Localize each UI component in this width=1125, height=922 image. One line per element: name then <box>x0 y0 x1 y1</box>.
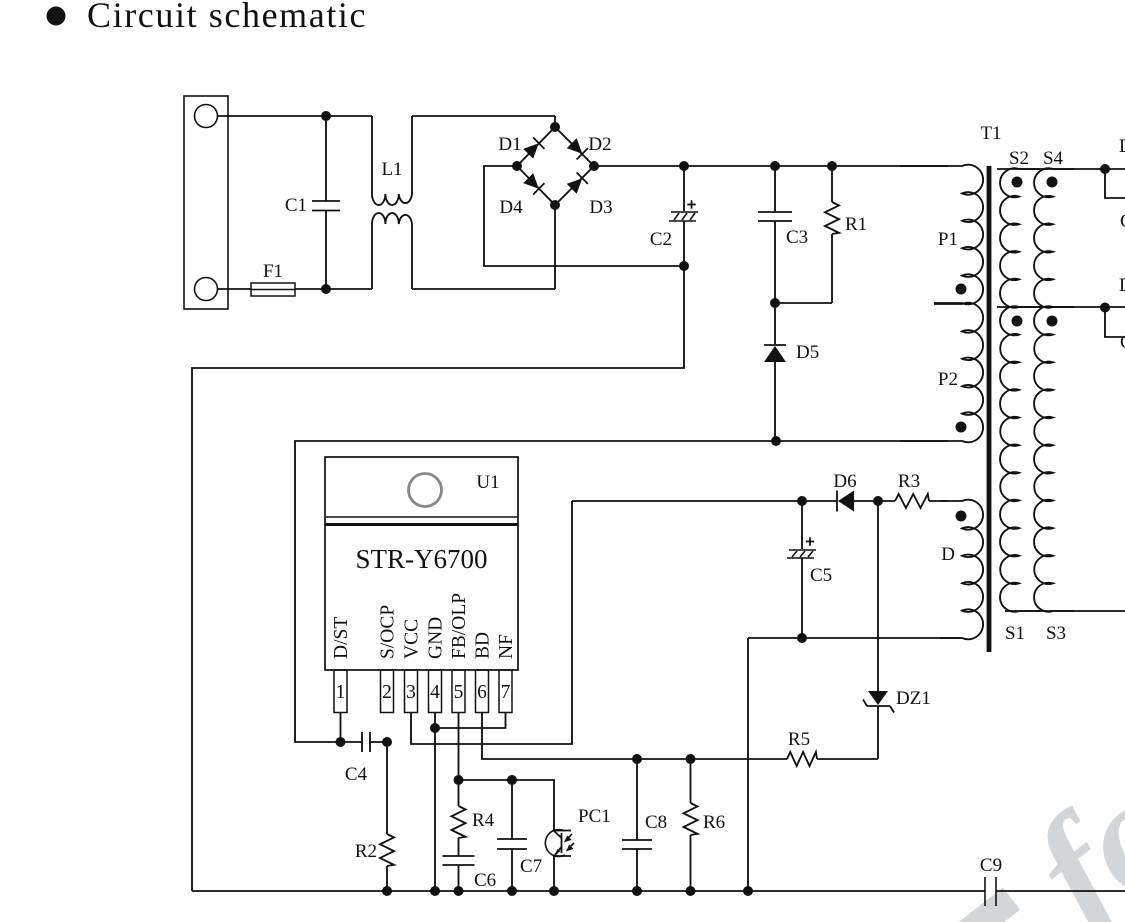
winding S4 upper <box>1034 168 1074 307</box>
label D winding <box>941 544 955 565</box>
node C5 bottom <box>797 633 807 643</box>
wire pin4 GND <box>434 713 436 892</box>
wire primary return <box>295 441 948 742</box>
svg-text:R2: R2 <box>355 841 377 862</box>
node C3 bottom <box>770 298 780 308</box>
node D5 anode <box>771 436 781 446</box>
diode D1 <box>523 138 545 160</box>
wire VCC rail <box>572 500 837 502</box>
svg-text:FB/OLP: FB/OLP <box>449 593 470 659</box>
label D5 <box>796 342 819 363</box>
capacitor C4 <box>341 732 388 752</box>
label D7 partial <box>1119 136 1125 157</box>
node C3 top <box>770 161 780 171</box>
pin 7 number <box>501 682 511 703</box>
connector pin bottom <box>195 278 218 301</box>
node bridge top <box>550 122 560 132</box>
node C1 bottom <box>321 284 331 294</box>
node secondary top <box>1100 164 1110 174</box>
phase dot D <box>956 511 967 522</box>
node C1 top <box>321 111 331 121</box>
label D8 partial <box>1119 275 1125 296</box>
wire secondary top drop <box>1105 169 1125 198</box>
svg-text:C2: C2 <box>650 229 672 250</box>
wire pin3 VCC <box>411 501 572 744</box>
node C5 return gnd <box>743 886 753 896</box>
bridge frame <box>517 127 594 205</box>
capacitor C6 <box>443 856 475 891</box>
node bridge right <box>589 161 599 171</box>
diode D5 <box>764 303 786 441</box>
node pin2 <box>382 737 392 747</box>
node C6 gnd <box>454 886 464 896</box>
label R4 <box>472 810 495 831</box>
capacitor C8 <box>622 759 652 891</box>
IC U1 hole <box>409 474 442 507</box>
svg-text:L1: L1 <box>381 159 402 180</box>
svg-text:F1: F1 <box>263 261 283 282</box>
wire pin1 D/ST <box>340 713 342 743</box>
svg-text:1: 1 <box>336 682 346 703</box>
svg-text:6: 6 <box>477 682 487 703</box>
resistor R2 <box>380 742 394 891</box>
node C7 gnd <box>507 886 517 896</box>
label D1 <box>498 134 521 155</box>
resistor R4 <box>452 780 466 856</box>
label C8 <box>645 812 667 833</box>
node R1 top <box>827 161 837 171</box>
winding P2 <box>900 303 983 443</box>
winding P1 <box>900 165 983 305</box>
node C2 top <box>679 161 689 171</box>
svg-text:2: 2 <box>382 682 392 703</box>
svg-text:C1: C1 <box>285 195 307 216</box>
connector J1 <box>184 96 228 309</box>
wire L1 to bridge bottom <box>412 205 555 289</box>
label S3 <box>1046 623 1066 644</box>
connector pin top <box>195 105 218 128</box>
resistor R3 <box>878 494 948 508</box>
pin 1 number <box>336 682 346 703</box>
svg-text:5: 5 <box>454 682 464 703</box>
node secondary mid <box>1100 303 1110 313</box>
label PC1 <box>578 806 611 827</box>
svg-text:BD: BD <box>473 632 494 659</box>
wire bridge minus <box>484 166 684 266</box>
capacitor C1 <box>312 116 340 289</box>
svg-text:3: 3 <box>406 682 416 703</box>
label R2 <box>355 841 377 862</box>
transformer core <box>987 166 992 652</box>
svg-text:4: 4 <box>430 682 440 703</box>
svg-text:S3: S3 <box>1046 623 1066 644</box>
svg-text:C5: C5 <box>810 565 832 586</box>
node C7 top <box>507 775 517 785</box>
diode D6 <box>837 491 878 512</box>
wire secondary bottom <box>1005 610 1125 612</box>
phase dot S2 lower <box>1012 316 1023 327</box>
wire pin6 BD <box>482 713 787 760</box>
pin 4 number <box>430 682 440 703</box>
pin 6 number <box>477 682 487 703</box>
capacitor C5 <box>787 501 816 638</box>
pin 7 name NF <box>496 634 517 659</box>
node C5 top <box>797 496 807 506</box>
svg-text:T1: T1 <box>980 123 1001 144</box>
optocoupler PC1 <box>545 829 574 891</box>
label C11 partial <box>1120 332 1125 353</box>
diode D4 <box>523 173 545 195</box>
label DZ1 <box>896 688 931 709</box>
label R1 <box>845 214 867 235</box>
node C8 gnd <box>632 886 642 896</box>
label C5 <box>810 565 832 586</box>
pin 3 lead <box>405 670 418 713</box>
pin 5 number <box>454 682 464 703</box>
wire bottom input left <box>218 288 252 290</box>
svg-text:VCC: VCC <box>402 619 423 659</box>
label STR-Y6700 <box>355 544 487 574</box>
pin 4 lead <box>429 670 442 713</box>
node FB <box>454 775 464 785</box>
svg-text:DZ1: DZ1 <box>896 688 931 709</box>
svg-text:D1: D1 <box>498 134 521 155</box>
svg-text:C1: C1 <box>1120 211 1125 232</box>
label D6 <box>833 471 856 492</box>
wire ground rail <box>192 890 1125 892</box>
svg-text:D5: D5 <box>796 342 819 363</box>
svg-text:R1: R1 <box>845 214 867 235</box>
svg-text:PC1: PC1 <box>578 806 611 827</box>
wire C5 return <box>748 638 961 891</box>
node D6 R3 <box>873 496 883 506</box>
label R5 <box>788 729 810 750</box>
wire secondary mid drop <box>1105 308 1125 338</box>
capacitor C2 <box>669 166 698 266</box>
svg-text:S1: S1 <box>1005 623 1025 644</box>
label D3 <box>589 197 612 218</box>
diode D3 <box>566 173 588 195</box>
winding S2 upper <box>1000 168 1040 307</box>
IC U1 body <box>325 457 518 670</box>
phase dot P2 <box>956 422 967 433</box>
phase dot S4 upper <box>1047 177 1058 188</box>
resistor R1 <box>775 166 839 303</box>
wire secondary mid <box>997 306 1125 308</box>
svg-text:C9: C9 <box>980 855 1002 876</box>
phase dot P1 <box>956 284 967 295</box>
label P1 <box>938 229 958 250</box>
wire secondary top <box>997 168 1125 170</box>
inductor L1 <box>372 116 412 289</box>
pin 4 name GND <box>426 617 447 659</box>
title bullet <box>47 7 66 26</box>
label C10 partial <box>1120 211 1125 232</box>
zener DZ1 <box>863 501 894 759</box>
svg-text:C3: C3 <box>786 227 808 248</box>
svg-text:P2: P2 <box>938 369 958 390</box>
wire top input <box>218 115 373 117</box>
label F1 <box>263 261 283 282</box>
svg-text:D8: D8 <box>1119 275 1125 296</box>
svg-text:D4: D4 <box>499 197 523 218</box>
svg-text:Circuit schematic: Circuit schematic <box>87 0 367 35</box>
label C7 <box>520 856 542 877</box>
pin 6 lead <box>476 670 489 713</box>
node R6 gnd <box>686 886 696 896</box>
svg-text:GND: GND <box>426 617 447 659</box>
svg-text:D/ST: D/ST <box>331 617 352 659</box>
pin 2 lead <box>381 670 394 713</box>
svg-text:R3: R3 <box>898 471 920 492</box>
label P2 <box>938 369 958 390</box>
svg-text:7: 7 <box>501 682 511 703</box>
label C3 <box>786 227 808 248</box>
pin 1 lead <box>334 670 347 713</box>
node pin4 GND <box>430 723 440 733</box>
label R3 <box>898 471 920 492</box>
svg-text:R6: R6 <box>703 812 725 833</box>
label S2 <box>1009 148 1029 169</box>
label C9 <box>980 855 1002 876</box>
wire pin7 NF to GND <box>435 713 506 729</box>
svg-text:S2: S2 <box>1009 148 1029 169</box>
svg-text:S4: S4 <box>1043 148 1064 169</box>
svg-text:D6: D6 <box>833 471 856 492</box>
svg-text:C4: C4 <box>345 764 368 785</box>
pin 3 name VCC <box>402 619 423 659</box>
label T1 <box>980 123 1001 144</box>
svg-text:R4: R4 <box>472 810 495 831</box>
label R6 <box>703 812 725 833</box>
wire HV bus <box>594 165 948 167</box>
wire bottom input right <box>295 288 372 290</box>
svg-text:NF: NF <box>496 634 517 659</box>
pin 3 number <box>406 682 416 703</box>
svg-text:D: D <box>941 544 955 565</box>
label C1 <box>285 195 307 216</box>
winding S4 lower (S3) <box>1034 306 1074 611</box>
node C8 top <box>632 754 642 764</box>
capacitor C9 <box>985 877 996 906</box>
node GND rail pin4 <box>430 886 440 896</box>
IC U1 tab line <box>325 517 518 525</box>
node bridge left <box>512 161 522 171</box>
node R2 gnd <box>382 886 392 896</box>
node bridge bottom <box>550 200 560 210</box>
svg-text:D7: D7 <box>1119 136 1125 157</box>
resistor R6 <box>684 759 698 891</box>
label S1 <box>1005 623 1025 644</box>
svg-text:C1: C1 <box>1120 332 1125 353</box>
label U1 <box>476 472 499 493</box>
node R6 top <box>686 754 696 764</box>
pin 5 lead <box>452 670 465 713</box>
node PC1 gnd <box>549 886 559 896</box>
svg-text:U1: U1 <box>476 472 499 493</box>
phase dot S4 lower <box>1047 316 1058 327</box>
wire FB to PC1 <box>459 780 555 830</box>
pin 6 name BD <box>473 632 494 659</box>
node pin1 <box>336 737 346 747</box>
wire L1 to bridge top <box>412 116 555 127</box>
svg-text:C7: C7 <box>520 856 542 877</box>
winding S2 lower (S1) <box>1000 306 1040 611</box>
pin 2 name S/OCP <box>378 605 399 659</box>
wire pin5 FB <box>458 713 460 781</box>
svg-text:C8: C8 <box>645 812 667 833</box>
watermark <box>928 739 1125 922</box>
title text <box>87 0 367 35</box>
svg-text:D2: D2 <box>588 134 611 155</box>
capacitor C7 <box>497 780 527 891</box>
label C6 <box>474 870 496 891</box>
svg-text:C6: C6 <box>474 870 496 891</box>
svg-text:D3: D3 <box>589 197 612 218</box>
label L1 <box>381 159 402 180</box>
label S4 <box>1043 148 1064 169</box>
label C2 <box>650 229 672 250</box>
capacitor C3 <box>758 166 792 303</box>
node C2 bottom <box>679 261 689 271</box>
fuse F1 <box>251 283 295 296</box>
pin 7 lead <box>499 670 512 713</box>
label D2 <box>588 134 611 155</box>
winding D <box>940 500 983 640</box>
svg-text:S/OCP: S/OCP <box>378 605 399 659</box>
wire C2 to primary ground <box>192 266 684 891</box>
svg-text:P1: P1 <box>938 229 958 250</box>
svg-text:R5: R5 <box>788 729 810 750</box>
pin 1 name D/ST <box>331 617 352 659</box>
label D4 <box>499 197 523 218</box>
label C4 <box>345 764 368 785</box>
pin 2 number <box>382 682 392 703</box>
pin 5 name FB/OLP <box>449 593 470 659</box>
resistor R5 <box>787 752 878 766</box>
phase dot S2 upper <box>1012 177 1023 188</box>
diode D2 <box>566 138 588 160</box>
svg-text:STR-Y6700: STR-Y6700 <box>355 544 487 574</box>
